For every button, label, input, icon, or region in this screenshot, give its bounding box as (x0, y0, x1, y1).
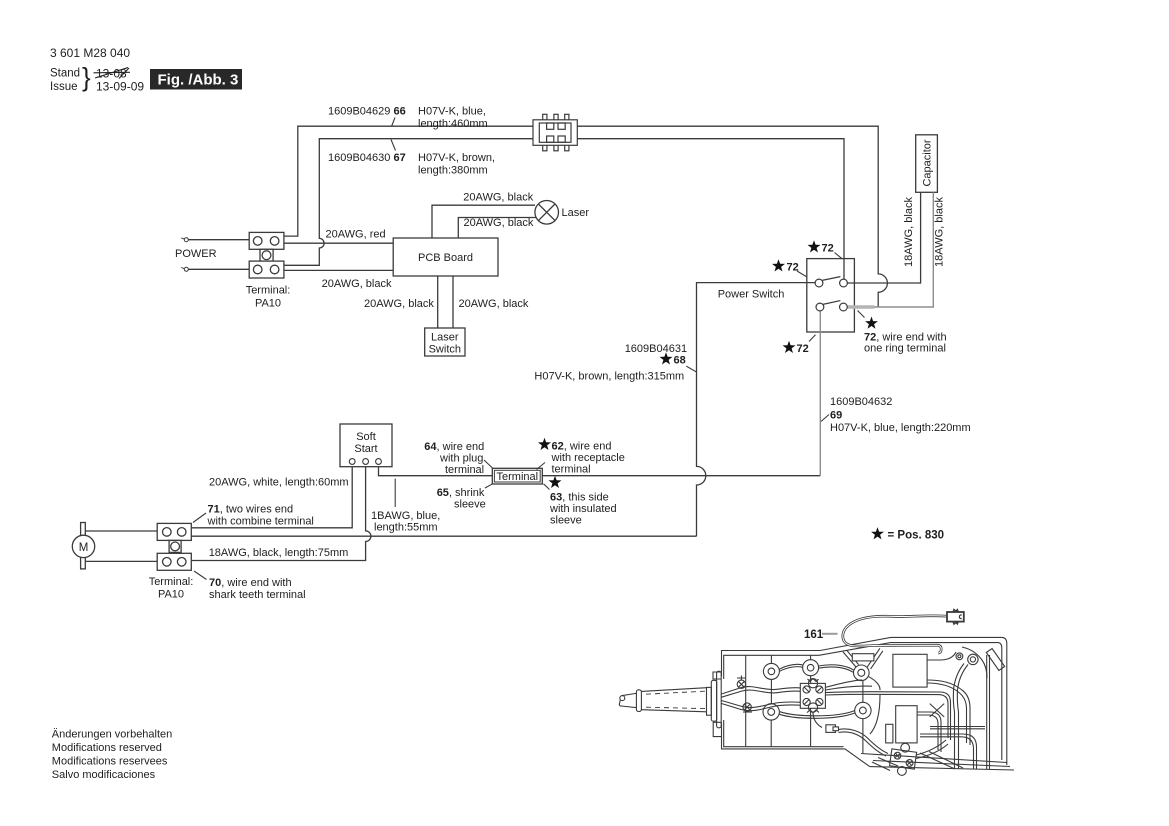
leader wire 1BAWG label (394, 479, 396, 507)
laser lamp (535, 201, 559, 225)
tool left fasteners (737, 680, 745, 688)
switch contact top-left (815, 279, 823, 287)
svg-text:13-08: 13-08 (96, 67, 127, 81)
figure box (150, 69, 242, 90)
power switch contacts (815, 277, 847, 311)
switch contact bottom-left (816, 303, 824, 311)
svg-text:with insulated: with insulated (549, 503, 617, 515)
motor terminal upper (71) (157, 523, 191, 540)
svg-text:62, wire end: 62, wire end (552, 441, 612, 453)
Laser Switch (425, 328, 465, 356)
motor to lower terminal (85, 560, 157, 562)
leader terminal 71 (193, 513, 206, 523)
svg-text:70, wire end with: 70, wire end with (209, 577, 292, 589)
svg-text:shark teeth terminal: shark teeth terminal (209, 589, 306, 601)
tool top row wires (779, 664, 803, 671)
svg-text:Terminal: Terminal (497, 471, 539, 483)
power stub wires (188, 239, 249, 241)
svg-text:H07V-K, blue,: H07V-K, blue, (418, 106, 486, 118)
terminal 71 hole 1 (163, 528, 172, 537)
star pos830 marker sleeve 63 (549, 476, 562, 488)
tool spindle collar (636, 690, 641, 712)
leader wire 69 label (821, 415, 829, 422)
tool right wires channels (953, 664, 968, 713)
svg-text:= Pos. 830: = Pos. 830 (888, 530, 945, 542)
tool wire161 plug (947, 612, 964, 622)
svg-text:161: 161 (804, 629, 824, 641)
svg-text:20AWG, black: 20AWG, black (322, 278, 392, 290)
svg-text:length:55mm: length:55mm (374, 522, 438, 534)
soft start pin 3 (376, 459, 382, 465)
svg-text:H07V-K, brown, length:315mm: H07V-K, brown, length:315mm (534, 371, 684, 383)
svg-text:72: 72 (797, 343, 809, 355)
terminal 71 hole 2 (177, 528, 186, 537)
svg-text:20AWG, black: 20AWG, black (364, 298, 434, 310)
svg-text:Issue: Issue (50, 81, 78, 93)
svg-text:1609B04629 66: 1609B04629 66 (328, 106, 406, 118)
svg-text:with receptacle: with receptacle (551, 452, 625, 464)
wire 20AWG black PCB-laser 2 (458, 218, 536, 239)
tool spindle nose tip (620, 696, 625, 701)
svg-text:68: 68 (674, 355, 686, 367)
leader 72 ring terminal (858, 311, 865, 318)
switch lever bottom (822, 301, 840, 305)
ring terminal sleeve 72 (848, 305, 875, 308)
POWER terminal middle (260, 249, 273, 261)
terminal PA10 motor middle hole (171, 542, 180, 551)
wire 20AWG white: soft start pin1 to terminal71 (191, 466, 352, 528)
star pos830 marker terminal 62 (538, 438, 551, 450)
svg-text:Capacitor: Capacitor (922, 139, 934, 186)
tool clip (826, 725, 836, 733)
svg-text:20AWG, white, length:60mm: 20AWG, white, length:60mm (209, 477, 349, 489)
wire PCB to laser switch 1 (437, 276, 439, 328)
svg-text:72: 72 (822, 243, 834, 255)
svg-text:18AWG, black: 18AWG, black (934, 197, 946, 267)
soft start pin 1 (349, 459, 355, 465)
star pos830 marker at switch bottom (72) (783, 341, 796, 353)
wire 1BAWG blue: soft start pin3 to terminal (379, 466, 493, 476)
wire 69 blue: switch to horizontal (819, 311, 821, 476)
svg-text:Soft: Soft (356, 431, 376, 443)
motor (72, 523, 94, 569)
tool boss circles (763, 663, 779, 679)
wire 67 right section (577, 139, 844, 279)
tool wire161 cable (843, 616, 947, 653)
leader sleeve 65 (485, 484, 493, 488)
wire terminal to switch (62/63) (542, 475, 820, 477)
svg-text:length:460mm: length:460mm (418, 118, 488, 130)
bottom left block (52, 729, 172, 782)
Soft Start (340, 424, 392, 467)
POWER terminal lower (249, 261, 284, 278)
tool right-bottom wire channels (930, 727, 985, 729)
leader wire 66 label (392, 118, 396, 127)
terminal PA10 power upper hole 1 (253, 237, 262, 246)
svg-text:terminal: terminal (445, 464, 484, 476)
leader 72 top (835, 253, 843, 259)
svg-text:with combine terminal: with combine terminal (207, 516, 314, 528)
tool wires from brush2 (916, 740, 948, 759)
svg-text:H07V-K, blue, length:220mm: H07V-K, blue, length:220mm (830, 422, 971, 434)
PCB Board (393, 238, 498, 276)
terminal 70 hole 1 (163, 558, 172, 567)
svg-text:length:380mm: length:380mm (418, 165, 488, 177)
wire 18AWG black: soft start pin2 to terminal70, hop over wire68 (191, 466, 371, 561)
svg-text:20AWG, black: 20AWG, black (459, 298, 529, 310)
svg-text:72: 72 (787, 262, 799, 274)
terminal PA10 power middle hole (262, 251, 271, 260)
POWER terminal upper (249, 232, 284, 249)
svg-text:65, shrink: 65, shrink (437, 487, 485, 499)
svg-text:13-09-09: 13-09-09 (96, 80, 144, 94)
wire capacitor left lead (847, 192, 920, 283)
svg-text:Power Switch: Power Switch (718, 289, 785, 301)
leader sleeve 63 (544, 484, 550, 490)
tool brush block 2 (888, 742, 917, 777)
leader wire 67 label (391, 140, 396, 151)
svg-text:20AWG, red: 20AWG, red (326, 229, 386, 241)
tool V struts around boss3 (843, 650, 859, 667)
svg-text:}: } (82, 62, 91, 92)
svg-text:Salvo modificaciones: Salvo modificaciones (52, 769, 156, 781)
svg-text:Start: Start (354, 443, 377, 455)
switch lever top (822, 277, 840, 281)
svg-text:71, two wires end: 71, two wires end (208, 504, 294, 516)
tool inner wall right (987, 655, 990, 758)
svg-text:sleeve: sleeve (550, 515, 582, 527)
svg-text:Laser: Laser (431, 332, 459, 344)
svg-text:PA10: PA10 (158, 589, 184, 601)
soft start pin 2 (363, 459, 369, 465)
motor terminal middle (169, 540, 181, 552)
Power Switch (807, 259, 855, 332)
wire 67 brown H07V-K with hop over red wire (284, 139, 533, 266)
tool flange plates (707, 687, 712, 715)
motor to upper terminal (85, 530, 157, 532)
svg-text:20AWG, black: 20AWG, black (464, 217, 534, 229)
star legend symbol (871, 527, 884, 539)
svg-text:1BAWG, blue,: 1BAWG, blue, (371, 510, 440, 522)
svg-text:with plug: with plug (439, 453, 483, 465)
svg-text:terminal: terminal (552, 464, 591, 476)
svg-text:20AWG, black: 20AWG, black (463, 192, 533, 204)
terminal PA10 power upper hole 2 (270, 237, 279, 246)
wire capacitor right lead (gray) (847, 192, 933, 307)
wire 66 blue H07V-K left (284, 126, 533, 236)
wire 66 right section to capacitor side with hop (577, 126, 887, 307)
svg-text:Switch: Switch (429, 344, 461, 356)
power stub pin lower (184, 267, 188, 271)
wire 20AWG black power-PCB (284, 269, 393, 271)
tool right components (852, 654, 874, 661)
svg-text:3 601 M28 040: 3 601 M28 040 (50, 46, 130, 60)
terminal PA10 power lower hole 1 (253, 265, 262, 274)
leader 72 bottom (809, 335, 816, 342)
wire 68 brown: terminal71 to power switch with hop (191, 283, 815, 537)
svg-text:sleeve: sleeve (454, 499, 486, 511)
switch contact top-right (840, 279, 848, 287)
svg-text:Fig. /Abb. 3: Fig. /Abb. 3 (158, 72, 239, 89)
star pos830 marker at switch top (72) (808, 240, 821, 252)
wire PCB to laser switch 2 (452, 276, 454, 328)
power stub pin upper (184, 238, 188, 242)
svg-text:63, this side: 63, this side (550, 492, 609, 504)
wire 20AWG black PCB-laser 1 (432, 205, 535, 238)
leader terminal 64 (484, 460, 493, 469)
terminal PA10 power lower hole 2 (270, 265, 279, 274)
leader terminal 62 (537, 463, 546, 470)
soft start pins (349, 459, 381, 465)
svg-text:1609B04630 67: 1609B04630 67 (328, 152, 406, 164)
svg-text:M: M (79, 542, 89, 554)
tool bottom right diagonals (870, 767, 1014, 770)
tool ribs (745, 655, 747, 746)
tool wires middle-right (825, 680, 872, 690)
switch contact bottom-right (840, 303, 848, 311)
connector block top (533, 114, 577, 151)
tool thick cable (722, 687, 801, 694)
Capacitor (916, 135, 938, 193)
tool bottom row wires (779, 711, 855, 719)
svg-text:PA10: PA10 (255, 298, 281, 310)
svg-text:Stand: Stand (50, 68, 80, 80)
svg-text:Modifications reservees: Modifications reservees (52, 756, 168, 768)
tool housing outline (722, 637, 1007, 765)
svg-text:1609B04632: 1609B04632 (830, 396, 892, 408)
svg-text:Terminal:: Terminal: (246, 285, 291, 297)
svg-text:Terminal:: Terminal: (149, 576, 194, 588)
svg-text:PCB Board: PCB Board (418, 252, 473, 264)
wire 20AWG red (284, 242, 393, 244)
svg-text:69: 69 (830, 410, 842, 422)
svg-text:18AWG, black: 18AWG, black (903, 197, 915, 267)
Terminal double box (492, 468, 542, 484)
star pos830 marker ring terminal (72) (865, 317, 878, 329)
leader wire 68 label (686, 366, 697, 372)
motor terminal lower (70) (157, 553, 191, 570)
star pos830 marker at switch left (72) (772, 259, 785, 271)
svg-text:Änderungen vorbehalten: Änderungen vorbehalten (52, 729, 172, 741)
power terminals dots (181, 238, 188, 272)
svg-text:H07V-K, brown,: H07V-K, brown, (418, 152, 495, 164)
tool spindle cone (641, 688, 706, 712)
leader 72 left (797, 271, 807, 277)
svg-text:POWER: POWER (175, 248, 217, 260)
star pos830 marker wire 68 (660, 352, 673, 364)
svg-text:one ring terminal: one ring terminal (864, 343, 946, 355)
svg-text:Laser: Laser (562, 207, 590, 219)
terminal 70 hole 2 (177, 558, 186, 567)
tool brush holder block (800, 683, 825, 708)
svg-text:18AWG, black, length:75mm: 18AWG, black, length:75mm (209, 547, 349, 559)
svg-text:1609B04631: 1609B04631 (625, 343, 687, 355)
svg-text:Modifications reserved: Modifications reserved (52, 742, 162, 754)
leader terminal 70 (194, 571, 207, 580)
svg-text:64, wire end: 64, wire end (424, 441, 484, 453)
